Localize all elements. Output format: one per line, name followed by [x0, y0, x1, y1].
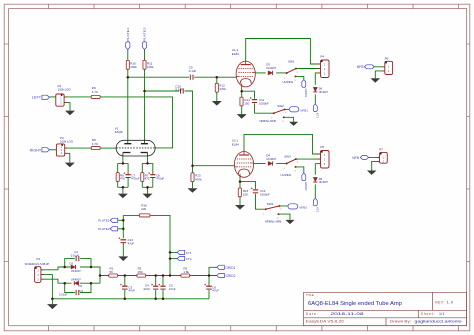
- net pill KT1 vertical: [313, 104, 317, 112]
- wire U2 cathode node: [239, 175, 241, 205]
- svg-text:1000uF: 1000uF: [259, 102, 269, 106]
- wire KT2 tap: [170, 258, 177, 260]
- svg-text:EL84: EL84: [232, 142, 239, 146]
- net flag KT1: [177, 250, 185, 254]
- svg-text:100k LOG: 100k LOG: [60, 140, 74, 144]
- svg-text:SW4: SW4: [267, 202, 274, 206]
- wire SW4 to NFB2: [280, 205, 289, 207]
- wire R8 to V1 grid1: [100, 147, 116, 149]
- svg-text:2018-11-08: 2018-11-08: [331, 312, 364, 316]
- wire bridge output node: [91, 267, 109, 283]
- svg-text:1000uF: 1000uF: [260, 193, 270, 197]
- svg-text:TITLE:: TITLE:: [306, 293, 315, 297]
- wire C12 to SW4: [256, 194, 266, 210]
- svg-text:PLATE2: PLATE2: [98, 227, 110, 231]
- connector P6 NFB: [385, 61, 393, 74]
- svg-text:REV:: REV:: [435, 301, 444, 305]
- net flag GRID2: [217, 273, 225, 277]
- connector P1 power input WJ2EDGVC-5.08-3P: [35, 267, 41, 283]
- svg-text:WJ2EDGVC-5.08-3P: WJ2EDGVC-5.08-3P: [25, 262, 50, 266]
- svg-text:0.1uF: 0.1uF: [189, 69, 197, 73]
- cathode capacitor C8 470uF: [150, 174, 155, 176]
- capacitor C1 0.01uF: [76, 290, 79, 295]
- switch SW4: [266, 206, 280, 209]
- svg-text:GRID2: GRID2: [304, 182, 308, 191]
- capacitor C3 47uF: [122, 285, 128, 287]
- wire D4 to SW3: [276, 163, 286, 165]
- wire PLATE2 tap: [118, 228, 124, 230]
- svg-text:UF4007: UF4007: [71, 278, 81, 282]
- wire R6 C7 loop: [118, 163, 128, 193]
- net pill GRID1 vertical: [302, 80, 306, 88]
- wire D2 branch: [65, 282, 91, 284]
- svg-text:UL/PEN: UL/PEN: [283, 80, 293, 84]
- wire P3 wiper to R8: [65, 147, 92, 149]
- svg-text:NFB2: NFB2: [299, 205, 307, 209]
- ground for R15: [235, 205, 245, 210]
- svg-text:470uF: 470uF: [156, 177, 164, 181]
- connector P7 NFB: [380, 152, 388, 163]
- capacitor C9 0.1uF: [190, 75, 193, 80]
- svg-text:1/1: 1/1: [439, 312, 445, 316]
- svg-text:C1: C1: [80, 289, 84, 293]
- wire P1 pin1 to bridge: [41, 267, 65, 270]
- ground for P7: [367, 171, 377, 175]
- diode D1 UF4007: [71, 265, 76, 269]
- resistor R10 100k: [126, 60, 129, 69]
- wire V1 cathode1 to RC: [122, 156, 124, 164]
- capacitor C10 0.1uF: [181, 88, 184, 93]
- ground for SW4: [285, 220, 294, 224]
- resistor R16 22k: [139, 214, 150, 217]
- net flag KT2: [177, 257, 185, 261]
- wire LEFT input to P2: [50, 96, 56, 98]
- wire node to C10: [145, 90, 180, 92]
- switch SW2: [274, 109, 285, 113]
- svg-text:47uF: 47uF: [212, 289, 219, 293]
- wire cathode to C12: [240, 182, 256, 189]
- svg-text:UF4007: UF4007: [71, 269, 81, 273]
- wire SW2 to ground: [284, 117, 294, 121]
- ground for P2: [65, 111, 75, 116]
- svg-text:1.8k: 1.8k: [183, 270, 189, 274]
- net flag PLATE2 vertical: [142, 42, 146, 50]
- cathode resistor R7 475: [141, 173, 144, 182]
- wire SW1 to P4 pin2: [296, 68, 321, 70]
- svg-text:0.1uF: 0.1uF: [175, 88, 183, 92]
- svg-text:EL84: EL84: [232, 52, 239, 56]
- svg-text:UF4007: UF4007: [319, 180, 329, 184]
- wire P1 pin2 to ground bus: [41, 275, 53, 305]
- ground for R7 C8: [143, 194, 153, 199]
- svg-text:Date:: Date:: [306, 312, 318, 316]
- wire C4 stems: [155, 276, 157, 299]
- svg-text:SW2: SW2: [277, 104, 284, 108]
- wire SW1 to GRID1 pill: [296, 76, 304, 79]
- svg-text:4.7K: 4.7K: [92, 142, 98, 146]
- wire P2 to ground: [64, 103, 70, 111]
- wire C2 snubber loop: [65, 259, 91, 267]
- wire P3 to ground: [65, 153, 70, 162]
- wire NFB port P7: [369, 157, 380, 170]
- wire P4 pin3 to D6: [315, 73, 320, 85]
- svg-text:150: 150: [243, 193, 248, 197]
- svg-text:100k: 100k: [147, 65, 154, 69]
- cathode capacitor C7 470uF: [126, 174, 131, 176]
- svg-text:P5: P5: [320, 145, 324, 149]
- svg-text:47uF: 47uF: [128, 289, 135, 293]
- svg-text:NFB/No NFB: NFB/No NFB: [260, 119, 276, 123]
- svg-text:47uF: 47uF: [169, 287, 176, 291]
- wire C11 to SW2: [255, 103, 274, 113]
- svg-text:D2: D2: [79, 284, 83, 288]
- wire preamp B+ node / R16 left: [123, 215, 139, 238]
- resistor R3 1.8k: [181, 274, 190, 277]
- wire U1 g2 to D3: [255, 72, 265, 74]
- svg-text:NFB: NFB: [352, 156, 359, 160]
- connector P5 output transformer: [321, 151, 330, 169]
- wire R10 to V1 plate1: [127, 69, 129, 140]
- capacitor C13 47uF: [121, 239, 127, 241]
- net flag NFB2: [288, 204, 298, 209]
- wire SW3 to P5 pin2: [296, 158, 321, 160]
- svg-text:475: 475: [145, 177, 150, 181]
- ground for R12: [212, 101, 222, 106]
- svg-text:470uF: 470uF: [131, 177, 139, 181]
- ground for C13: [118, 256, 128, 261]
- svg-text:47uF: 47uF: [128, 242, 135, 246]
- svg-text:Sheet:: Sheet:: [421, 312, 435, 316]
- svg-text:NFB1: NFB1: [300, 108, 308, 112]
- wire node to C9: [128, 76, 189, 78]
- junction dots: [127, 76, 130, 79]
- diode D2 UF4007: [74, 281, 79, 285]
- svg-text:470k: 470k: [219, 87, 226, 91]
- wire C10 down to U2 grid node: [185, 91, 193, 166]
- svg-text:6AQ8-EL84 Single ended Tube Am: 6AQ8-EL84 Single ended Tube Amp: [308, 301, 402, 307]
- wire R9 to V1 grid2 (via vertical): [100, 97, 172, 148]
- wire cathode to C11: [242, 91, 255, 98]
- capacitor C4 47uF: [153, 285, 158, 287]
- wire U1 plate B+ rail to P4 pin1: [246, 39, 321, 65]
- wire node to R13 and ground: [192, 166, 194, 189]
- ground for SW2: [289, 122, 298, 126]
- wire C3 stems: [124, 276, 126, 299]
- wire PLATE2 flag to R11: [144, 50, 146, 61]
- wire D1 branch: [65, 266, 91, 268]
- ground for R14: [237, 114, 247, 119]
- diode D5 UF4007: [313, 177, 317, 181]
- wire KT1 tap: [170, 251, 177, 253]
- svg-text:1.0: 1.0: [447, 301, 453, 305]
- wire C6 stems: [208, 276, 210, 299]
- svg-text:LEFT: LEFT: [32, 96, 42, 100]
- wire R16 right vertical to rail: [150, 215, 170, 275]
- ground for P3: [65, 163, 75, 168]
- wire RIGHT input to P3: [50, 149, 57, 151]
- svg-text:4.7K: 4.7K: [92, 90, 98, 94]
- wire SW3 to GRID2 pill: [296, 167, 304, 173]
- resistor R13 470k: [191, 173, 194, 182]
- svg-text:P4: P4: [320, 55, 324, 59]
- net pill KT2 vertical: [313, 198, 317, 206]
- capacitor C6 47uF: [206, 285, 212, 287]
- ground for P6: [371, 78, 381, 82]
- svg-text:100k: 100k: [130, 65, 137, 69]
- wire V1 cathode2 to RC: [147, 156, 149, 164]
- wire PLATE1 tap: [118, 219, 124, 221]
- switch SW1: [287, 69, 296, 74]
- svg-text:KT1: KT1: [315, 113, 319, 119]
- resistor R2 150: [137, 274, 146, 277]
- ground for R13: [188, 188, 198, 193]
- svg-text:P1: P1: [37, 257, 41, 261]
- svg-text:P6: P6: [385, 56, 389, 60]
- svg-text:GRID1: GRID1: [304, 89, 308, 98]
- svg-text:47uF: 47uF: [143, 287, 150, 291]
- svg-text:gaglianducci.antonio: gaglianducci.antonio: [415, 320, 462, 324]
- wire P5 pin3 to D5: [315, 164, 320, 175]
- net flag NFB1: [290, 107, 299, 112]
- switch SW3: [287, 159, 296, 163]
- wire SW2 to NFB1: [285, 108, 290, 110]
- wire C1 snubber loop: [65, 283, 91, 292]
- wire GRID1 GRID2 taps: [209, 267, 217, 275]
- svg-text:UF4007: UF4007: [266, 66, 276, 70]
- wire ground bus: [52, 298, 209, 300]
- cathode capacitor C11 1000uF: [252, 99, 257, 101]
- svg-text:150: 150: [244, 102, 249, 106]
- pentode U2.1 EL84: [234, 152, 253, 178]
- potentiometer P3 100k LOG: [56, 144, 64, 156]
- cathode capacitor C12 1000uF: [253, 189, 258, 191]
- svg-text:475: 475: [120, 177, 125, 181]
- wire U1 cathode node: [241, 87, 243, 114]
- wire D3 to SW1: [276, 72, 286, 74]
- svg-text:NFB/No NFB: NFB/No NFB: [265, 220, 281, 224]
- svg-text:EasyEDA V5.8.20: EasyEDA V5.8.20: [306, 320, 344, 324]
- svg-text:150: 150: [138, 270, 143, 274]
- svg-text:RIGHT: RIGHT: [30, 149, 43, 153]
- svg-text:470k: 470k: [195, 177, 202, 181]
- title block: [304, 292, 467, 325]
- wire P1 pin3 to bridge: [41, 279, 65, 283]
- wire C5 stems: [162, 276, 164, 299]
- wire U2 plate B+ rail to P5 pin1: [244, 134, 321, 154]
- svg-text:6AQ8: 6AQ8: [115, 130, 123, 134]
- svg-text:SW3: SW3: [284, 155, 291, 159]
- capacitor C5 47uF: [160, 285, 165, 287]
- wire rail R1 to R2: [118, 275, 137, 277]
- wire D5 to KT2 pill: [314, 184, 316, 198]
- diode D3 UF4007: [268, 71, 273, 75]
- wire R7 C8 loop: [142, 163, 153, 193]
- ground for R6 C7: [118, 194, 128, 199]
- connector P4 output transformer: [321, 60, 330, 78]
- net flag GRID1: [217, 265, 225, 269]
- svg-text:UL/PEN: UL/PEN: [281, 173, 291, 177]
- wire rail R3 to GRID node: [190, 275, 209, 277]
- resistor R1 56: [109, 274, 118, 277]
- svg-text:GRID1: GRID1: [225, 266, 235, 270]
- svg-text:KT2: KT2: [186, 257, 192, 261]
- svg-text:KT2: KT2: [315, 207, 319, 213]
- wire rail R2 to R3: [146, 275, 181, 277]
- svg-text:PLATE1: PLATE1: [126, 27, 130, 42]
- diode D6 UF4007: [313, 87, 317, 91]
- svg-text:22k: 22k: [141, 207, 146, 211]
- svg-text:PLATE2: PLATE2: [143, 27, 147, 42]
- resistor R12 470k: [215, 83, 218, 92]
- svg-text:UF4007: UF4007: [319, 90, 329, 94]
- wire node to U2 grid: [193, 165, 235, 167]
- wire C13 to ground: [122, 243, 124, 257]
- resistor R8 4.7K: [91, 147, 100, 150]
- ground for P1: [47, 304, 58, 309]
- cathode resistor R15 150: [238, 188, 241, 197]
- svg-text:D1: D1: [70, 261, 74, 265]
- svg-text:UF4007: UF4007: [266, 157, 276, 161]
- svg-text:Drawn By:: Drawn By:: [390, 320, 411, 324]
- wire C9 to U1 grid: [194, 76, 236, 78]
- cathode resistor R14 150: [240, 97, 243, 106]
- svg-text:SW1: SW1: [288, 59, 295, 63]
- diode D4 UF4007: [268, 161, 273, 165]
- capacitor C2 0.01uF: [76, 256, 79, 261]
- wire SW4 to ground: [279, 214, 291, 220]
- net pill GRID2 vertical: [302, 173, 306, 181]
- wire NFB port P6: [374, 67, 384, 79]
- svg-text:100k LOG: 100k LOG: [58, 88, 72, 92]
- wire PLATE1 flag to R10: [127, 50, 129, 61]
- svg-text:0.01uF: 0.01uF: [71, 253, 80, 257]
- triode V1 6AQ8: [116, 140, 155, 156]
- wire R12 node and ground: [216, 77, 218, 101]
- svg-text:0.01uF: 0.01uF: [59, 293, 68, 297]
- svg-text:56: 56: [110, 270, 114, 274]
- resistor R11 100k: [143, 60, 146, 69]
- wire U2 g2 to D4: [254, 163, 266, 165]
- wire R11 to V1 plate2: [144, 69, 146, 140]
- svg-text:P7: P7: [379, 147, 383, 151]
- wire P2 wiper to R9: [64, 96, 91, 98]
- svg-text:KT1: KT1: [186, 251, 192, 255]
- potentiometer P2 100k LOG: [56, 94, 64, 106]
- wire D6 to KT1 pill: [314, 94, 316, 104]
- svg-text:GRID2: GRID2: [225, 274, 235, 278]
- svg-text:NFB: NFB: [357, 65, 364, 69]
- net flag PLATE1 vertical: [126, 42, 130, 50]
- resistor R9 4.7K: [91, 95, 100, 98]
- cathode resistor R6 475: [116, 173, 119, 182]
- pentode U1.1 EL84: [236, 61, 255, 87]
- svg-text:PLATE1: PLATE1: [98, 219, 110, 223]
